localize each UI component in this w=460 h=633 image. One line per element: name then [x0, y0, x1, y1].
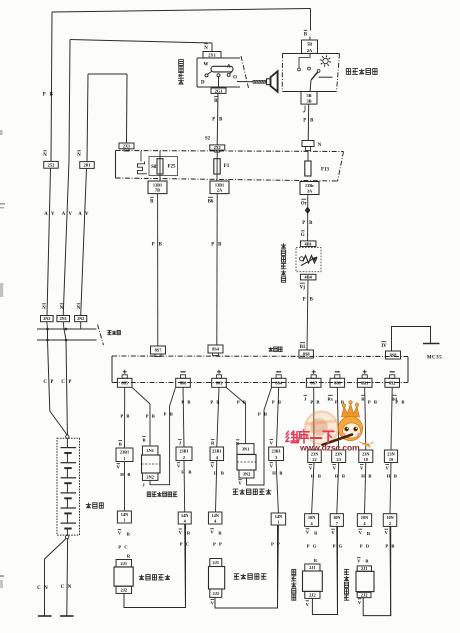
svg-text:19: 19: [389, 457, 393, 462]
svg-text:B: B: [361, 396, 364, 401]
svg-text:P B: P B: [212, 118, 224, 123]
svg-text:832: 832: [389, 380, 396, 385]
svg-text:P B: P B: [181, 400, 191, 405]
svg-text:P B: P B: [310, 400, 320, 405]
svg-text:10N: 10N: [308, 515, 316, 520]
svg-text:P G: P G: [307, 544, 318, 549]
svg-text:P B: P B: [152, 243, 164, 248]
svg-text:H B: H B: [272, 471, 283, 476]
svg-text:8S8: 8S8: [303, 352, 311, 357]
svg-text:2J2: 2J2: [361, 593, 368, 598]
svg-text:Rx: Rx: [327, 396, 333, 401]
svg-text:3B: 3B: [306, 99, 311, 104]
svg-text:23B1: 23B1: [271, 449, 280, 454]
svg-text:F1: F1: [224, 164, 230, 169]
svg-text:C N: C N: [61, 585, 73, 590]
svg-text:10N: 10N: [386, 515, 394, 520]
svg-text:C P: C P: [43, 380, 54, 385]
svg-text:H B: H B: [311, 474, 322, 479]
svg-text:23N: 23N: [362, 451, 370, 456]
svg-text:S8: S8: [151, 165, 157, 170]
svg-text:1: 1: [123, 518, 125, 523]
svg-text:G: G: [301, 233, 305, 238]
svg-text:14N: 14N: [121, 512, 129, 517]
svg-text:W: W: [204, 62, 209, 67]
svg-text:884: 884: [275, 380, 282, 385]
svg-text:www.dzsc.com: www.dzsc.com: [299, 442, 360, 452]
svg-text:H B: H B: [335, 474, 346, 479]
svg-text:A V: A V: [62, 212, 73, 217]
svg-text:14N: 14N: [181, 513, 189, 518]
svg-text:S2: S2: [205, 137, 211, 142]
svg-text:R: R: [150, 200, 154, 205]
svg-text:N: N: [43, 153, 47, 158]
svg-text:P D: P D: [360, 544, 371, 549]
svg-text:N: N: [204, 46, 208, 51]
svg-text:P B: P B: [146, 414, 156, 419]
svg-text:883: 883: [216, 380, 223, 385]
svg-text:C P: C P: [61, 380, 72, 385]
svg-text:2J2: 2J2: [121, 587, 128, 592]
svg-text:P B: P B: [120, 414, 130, 419]
svg-text:F25: F25: [167, 164, 176, 169]
svg-text:H B: H B: [120, 472, 131, 477]
svg-text:885: 885: [121, 380, 128, 385]
svg-text:2J1: 2J1: [121, 561, 128, 566]
svg-text:B: B: [119, 442, 122, 447]
svg-text:3N1: 3N1: [242, 447, 250, 452]
svg-text:F13: F13: [321, 168, 330, 173]
svg-text:8S4: 8S4: [212, 347, 220, 352]
svg-text:14N: 14N: [211, 513, 219, 518]
svg-text:P B: P B: [303, 118, 315, 123]
svg-text:2J2: 2J2: [309, 592, 316, 597]
svg-text:2N2: 2N2: [43, 316, 50, 321]
svg-text:N: N: [77, 306, 81, 311]
svg-text:P B: P B: [211, 243, 223, 248]
svg-text:P B: P B: [210, 400, 220, 405]
svg-text:A V: A V: [44, 212, 55, 217]
svg-text:2X1: 2X1: [208, 52, 216, 57]
svg-text:23B1: 23B1: [212, 449, 221, 454]
svg-text:P B: P B: [43, 93, 55, 98]
svg-text:N: N: [42, 306, 46, 311]
svg-text:2J1: 2J1: [309, 565, 316, 570]
svg-text:3: 3: [275, 455, 277, 460]
svg-text:P B: P B: [395, 400, 405, 405]
svg-text:23B1: 23B1: [179, 449, 188, 454]
svg-text:2X1: 2X1: [214, 145, 221, 150]
svg-text:H B: H B: [361, 474, 372, 479]
svg-text:8S8: 8S8: [390, 353, 398, 358]
svg-text:JV: JV: [381, 344, 387, 349]
svg-text:4B4: 4B4: [305, 275, 313, 280]
svg-text:N: N: [60, 306, 64, 311]
svg-text:C N: C N: [37, 586, 49, 591]
svg-text:Or: Or: [301, 201, 308, 206]
svg-text:H B: H B: [181, 470, 192, 475]
svg-text:A V: A V: [78, 212, 89, 217]
svg-text:P P: P P: [213, 542, 223, 547]
svg-text:887: 887: [310, 380, 317, 385]
svg-text:O: O: [233, 76, 237, 81]
svg-text:18: 18: [364, 457, 368, 462]
svg-text:2J2: 2J2: [213, 591, 220, 596]
svg-text:2A: 2A: [307, 48, 313, 53]
svg-text:Vj: Vj: [300, 286, 306, 291]
svg-text:MC35: MC35: [427, 356, 442, 361]
svg-text:888: 888: [334, 380, 341, 385]
svg-text:P B: P B: [237, 400, 247, 405]
svg-text:1: 1: [123, 456, 125, 461]
svg-text:2: 2: [389, 521, 391, 526]
svg-text:P G: P G: [333, 544, 344, 549]
svg-text:2N2: 2N2: [77, 316, 84, 321]
svg-text:5B: 5B: [306, 93, 311, 98]
svg-text:2A: 2A: [217, 188, 223, 193]
svg-text:P B: P B: [368, 400, 378, 405]
svg-text:8B1: 8B1: [361, 380, 368, 385]
svg-text:14N: 14N: [275, 514, 283, 519]
svg-text:P B: P B: [258, 412, 268, 417]
svg-text:1: 1: [277, 520, 279, 525]
svg-text:P P: P P: [271, 542, 281, 547]
svg-text:3N1: 3N1: [146, 448, 154, 453]
svg-text:H B: H B: [214, 471, 225, 476]
svg-text:P B: P B: [164, 412, 174, 417]
svg-text:P B: P B: [302, 221, 314, 226]
svg-text:2N1: 2N1: [60, 316, 67, 321]
svg-text:281: 281: [84, 163, 92, 168]
svg-text:B: B: [142, 438, 145, 443]
svg-text:3A: 3A: [307, 188, 313, 193]
svg-text:2G1: 2G1: [215, 88, 223, 93]
svg-text:5B: 5B: [307, 42, 312, 47]
svg-text:7B: 7B: [155, 188, 160, 193]
svg-text:3N2: 3N2: [243, 472, 251, 477]
svg-text:10N: 10N: [361, 515, 369, 520]
svg-text:23: 23: [337, 457, 341, 462]
svg-text:2J1: 2J1: [213, 560, 220, 565]
svg-text:P B: P B: [272, 400, 282, 405]
svg-text:252: 252: [48, 162, 56, 167]
svg-text:P C: P C: [118, 545, 129, 550]
svg-text:D: D: [201, 81, 205, 86]
svg-text:13Br: 13Br: [305, 183, 314, 188]
svg-text:A: A: [227, 65, 231, 70]
svg-text:23N: 23N: [387, 451, 395, 456]
svg-text:2: 2: [183, 455, 185, 460]
svg-text:4B1: 4B1: [305, 241, 312, 246]
svg-text:8S7: 8S7: [155, 348, 163, 353]
svg-text:23B1: 23B1: [120, 450, 129, 455]
svg-text:3N2: 3N2: [146, 474, 154, 479]
svg-text:2J1: 2J1: [361, 566, 368, 571]
svg-text:B1: B1: [300, 345, 306, 350]
svg-text:P B: P B: [303, 298, 315, 303]
svg-text:10N: 10N: [333, 515, 341, 520]
svg-text:886: 886: [180, 380, 187, 385]
svg-text:22: 22: [312, 457, 316, 462]
svg-text:N: N: [77, 153, 81, 158]
svg-text:H B: H B: [387, 474, 398, 479]
svg-text:N: N: [318, 143, 322, 148]
svg-text:B6: B6: [208, 200, 214, 205]
svg-text:2X1: 2X1: [123, 143, 130, 148]
